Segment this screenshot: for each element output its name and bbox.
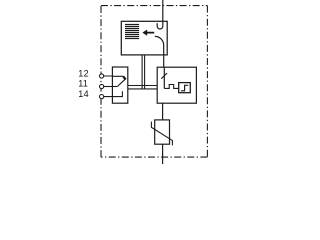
enclosure boundary (dash-dot): [101, 6, 207, 158]
disconnector wire (inside box): [163, 67, 165, 88]
wire: spark gap to disconnector box: [163, 55, 165, 67]
svg-text:12: 12: [78, 69, 89, 79]
mechanical link horizontal (double line): [128, 86, 157, 89]
spark gap upper electrode (wire with J-hook): [157, 21, 163, 29]
trigger box: [179, 83, 191, 93]
arc splitter stack (hatched block): [125, 25, 139, 39]
switch blade (common arm): [117, 78, 126, 86]
thermal disconnector / monitoring box: [157, 67, 196, 103]
wire: varistor to earth (bottom): [162, 144, 164, 164]
mechanical link vertical (double line): [142, 55, 145, 89]
arrow (arc blow direction): [142, 30, 154, 36]
terminal circle 14: [100, 95, 104, 99]
spark gap unit U1 box: [121, 21, 167, 55]
blade tip tick: [123, 77, 125, 80]
terminal circle 12: [100, 74, 104, 78]
wire: line conductor in (top): [162, 0, 164, 21]
wire: terminal 12 to NC contact: [104, 75, 124, 77]
wire: terminal 14 with hook (NO contact): [104, 91, 123, 96]
terminal circle 11: [100, 84, 104, 88]
varistor RV1 body: [155, 120, 170, 144]
varistor diagonal with tails: [151, 122, 172, 146]
svg-text:11: 11: [78, 79, 88, 89]
svg-text:14: 14: [78, 89, 89, 99]
wire: disconnector box to varistor: [162, 103, 164, 120]
latch meander to trigger: [164, 85, 178, 89]
disconnector break tick: [161, 73, 167, 79]
spark gap lower electrode (arc into down wire): [155, 36, 164, 55]
wire: terminal 11 common: [104, 86, 118, 88]
step function symbol: [181, 85, 188, 91]
changeover contact box (remote signalling): [112, 67, 127, 103]
